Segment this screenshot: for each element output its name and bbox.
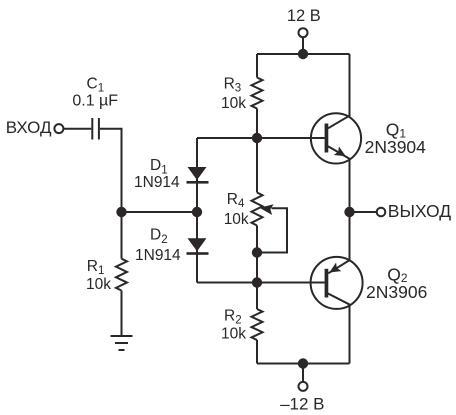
diode D2 [187,238,209,255]
wire top rail to Q1 collector [349,54,351,116]
svg-text:2N3904: 2N3904 [365,137,427,157]
svg-text:10k: 10k [86,276,111,293]
R4 wiper arm [262,208,287,252]
svg-text:0.1 µF: 0.1 µF [72,93,118,110]
Q1 base bar [325,124,329,153]
svg-text:R3: R3 [224,75,242,94]
transistor Q2 circle [311,257,363,309]
resistor R2 [252,309,263,340]
svg-text:10k: 10k [224,211,249,228]
capacitor C1 [92,118,99,140]
wire diode chain to Q2 base rail [197,282,325,284]
wire Q1 base rail [197,137,325,139]
svg-text:1N914: 1N914 [134,174,180,191]
power terminal -12V circle [299,382,308,391]
wire R2 to bottom rail [256,340,258,364]
Q2 collector diagonal [328,293,351,305]
svg-text:1N914: 1N914 [135,247,181,264]
svg-text:R2: R2 [224,307,242,326]
junction dot output node [344,207,354,217]
top rail 12V [257,53,350,55]
junction dot bottom rail [298,358,308,368]
power terminal -12V stub [302,364,304,382]
wire input terminal to C1 [64,128,92,130]
junction dot Q1 base / R3 [252,133,262,143]
junction dot Q2 base [252,277,262,287]
bottom rail -12V [257,363,350,365]
wire diode chain vertical [196,138,198,283]
ground [111,336,133,350]
power terminal +12V circle [299,28,308,37]
svg-text:10k: 10k [221,326,246,343]
wire top rail to R3 [256,54,258,78]
wire node A down to R1 [121,212,123,259]
resistor R1 [116,259,127,291]
junction dot node A [116,207,126,217]
diode D1 [187,167,209,184]
transistor Q1 circle [311,113,361,163]
svg-text:10k: 10k [221,95,246,112]
wire node A horizontal to diode node [122,211,198,213]
Q1 emitter diagonal [328,146,350,159]
junction dot diode node [192,207,202,217]
Q2 base bar [325,269,329,298]
wire output node to output terminal [350,211,377,213]
svg-text:D2: D2 [150,227,168,246]
junction dot wiper node [252,247,262,257]
junction dot top rail [298,49,308,59]
potentiometer R4 [252,193,263,226]
output terminal ВЫХОД circle [377,208,386,217]
Q2 emitter arrow [329,263,341,273]
svg-text:2N3906: 2N3906 [366,282,427,302]
wire C1 to left vertical node [100,129,122,212]
Q2 emitter diagonal [328,260,350,274]
R4 wiper arrowhead [260,204,274,215]
wire R1 to ground [121,291,123,337]
Q1 emitter arrow [334,146,346,156]
svg-text:R4: R4 [227,191,245,210]
wire Q1 emitter to output node to Q2 emitter [349,159,351,260]
wire R4 to R2 [256,226,258,310]
svg-text:12 В: 12 В [287,7,321,25]
power terminal +12V stub [302,37,304,54]
svg-text:ВЫХОД: ВЫХОД [388,201,451,221]
wire Q2 collector to bottom rail [349,305,351,364]
svg-text:R1: R1 [87,258,105,277]
svg-text:–12 В: –12 В [280,394,324,413]
wire R3 to R4 [256,109,258,193]
resistor R3 [252,78,263,109]
Q1 collector diagonal [328,115,350,128]
svg-text:ВХОД: ВХОД [6,118,52,137]
input terminal ВХОД [54,124,63,133]
